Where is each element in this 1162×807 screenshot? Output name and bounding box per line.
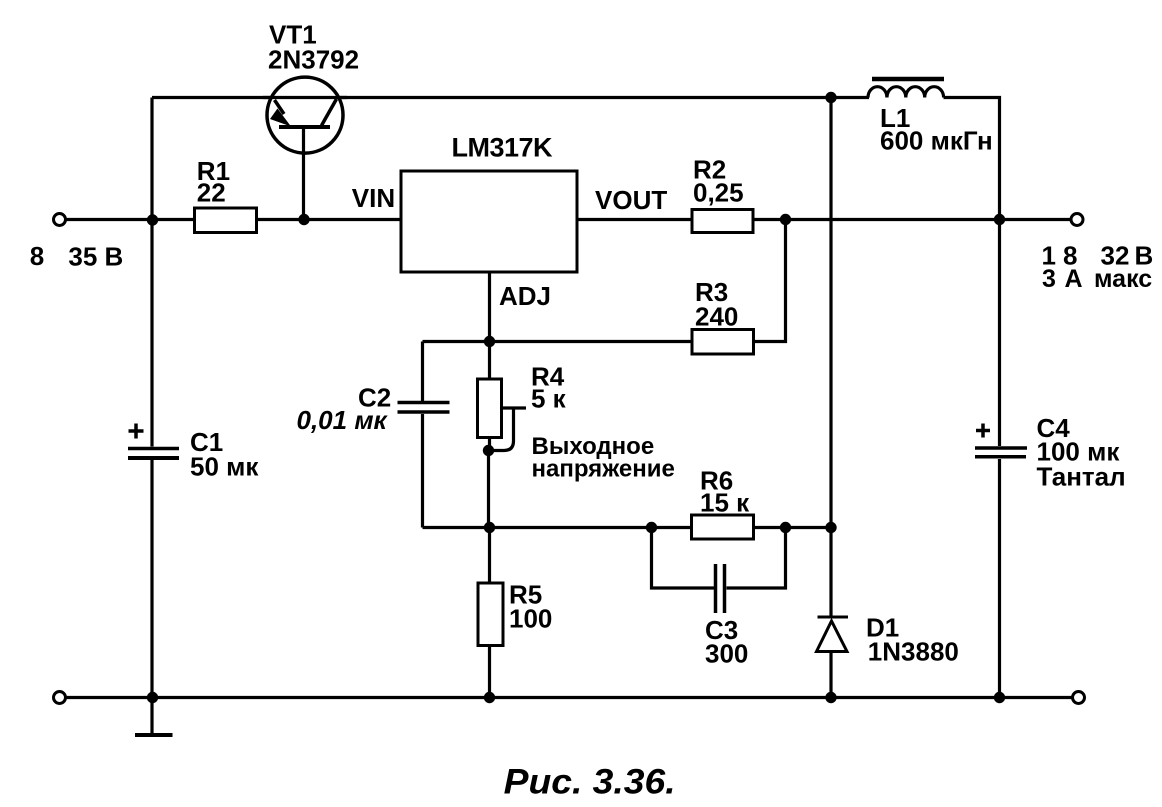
svg-text:VIN: VIN xyxy=(352,183,395,213)
svg-text:300: 300 xyxy=(705,639,748,669)
svg-text:Тантал: Тантал xyxy=(1037,462,1126,492)
svg-text:3: 3 xyxy=(1042,265,1056,293)
svg-text:макс: макс xyxy=(1094,265,1152,293)
svg-text:8: 8 xyxy=(30,241,44,271)
svg-text:1N3880: 1N3880 xyxy=(868,637,959,667)
svg-text:0,01 мк: 0,01 мк xyxy=(297,405,389,435)
svg-text:А: А xyxy=(1065,265,1083,293)
svg-text:50 мк: 50 мк xyxy=(190,452,259,482)
svg-text:0,25: 0,25 xyxy=(693,178,744,208)
svg-text:100: 100 xyxy=(509,604,552,634)
svg-text:напряжение: напряжение xyxy=(532,456,675,483)
svg-text:2N3792: 2N3792 xyxy=(268,45,359,75)
svg-text:LM317K: LM317K xyxy=(452,133,554,163)
svg-text:240: 240 xyxy=(695,302,738,332)
svg-text:35 В: 35 В xyxy=(68,242,123,272)
svg-text:15 к: 15 к xyxy=(700,488,750,518)
svg-text:ADJ: ADJ xyxy=(499,281,551,311)
svg-text:22: 22 xyxy=(197,178,226,208)
svg-text:VOUT: VOUT xyxy=(595,185,667,215)
svg-text:600 мкГн: 600 мкГн xyxy=(880,126,993,156)
svg-text:Рис. 3.36.: Рис. 3.36. xyxy=(504,763,676,802)
svg-text:5 к: 5 к xyxy=(531,384,567,414)
